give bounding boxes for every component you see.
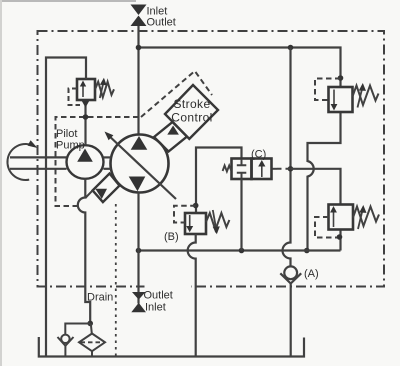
svg-text:Pilot: Pilot [56,128,77,140]
wire: drain branch to bypass check [65,324,90,335]
wire: upper relief return, hop over mid rail, to bottom rail [308,112,341,251]
wire: bypass check to tank [64,346,66,357]
wire: pilot pump up to pilot relief [84,100,86,145]
port triangle outlet (top, up) [131,16,147,27]
node top rail / pump line [136,45,142,51]
rotation arrow arc [7,144,33,180]
svg-text:Outlet: Outlet [147,17,176,29]
pilot relief spring [95,82,114,98]
relief valve upper right spring [353,86,379,106]
node bottom rail / pump line [136,248,142,254]
valve B arrow [189,215,191,227]
scan edge artifact left [0,0,2,366]
main pump bottom triangle [129,177,146,192]
main pump variable arrow [107,134,177,200]
wire: pilot pump case drain with hop [78,179,90,324]
wire: valve C right stub [272,168,278,170]
wire: servo link to drain [85,190,92,198]
main pump circle [111,135,169,193]
svg-text:Stroke: Stroke [173,97,210,111]
valve B body [185,213,206,234]
boundary gap near bottom port [145,282,192,291]
enclosure boundary (dash-dot case outline) [38,31,385,287]
wire: valve C bottom to bottom rail [240,179,242,251]
relief valve upper right pilot dashed [315,79,341,101]
servo link upper right [154,122,187,152]
dotted feedback line [115,204,117,357]
svg-text:Control: Control [171,111,212,125]
valve C spring [223,166,232,172]
svg-text:Inlet: Inlet [145,302,166,314]
wire: pump bottom to outlet/inlet port [137,193,139,304]
wire: valve B down with hop over bottom rail to tank [188,234,196,357]
svg-text:Drain: Drain [87,292,113,304]
svg-text:(A): (A) [304,268,319,280]
node upper relief pilot tap [338,75,344,81]
port triangle inlet (top, down) [131,5,147,16]
bypass check ball [61,335,69,343]
valve C left box [232,159,252,180]
wire: mid rail to lower right relief valve [291,169,341,205]
check valve A seat [280,273,301,283]
wire: right bus down to check valve A with hop over bottom rail [283,48,291,267]
relief valve lower right pilot dashed [315,217,337,238]
servo link upper triangle [167,126,179,135]
valve B pilot dashed [174,206,196,223]
scan edge artifact top [0,0,136,2]
wire: filter to tank [91,351,93,356]
pilot relief valve arrow [82,85,84,97]
pilot pump circle [67,145,104,179]
valve C blocked port top T [237,159,247,165]
valve B adjust arrow [213,210,216,228]
stroke control dashed diamond [141,71,212,117]
node relief return / bottom rail [304,248,310,254]
relief valve lower right arrow [333,212,335,227]
pilot drain arrowhead [82,101,90,108]
valve C flow arrow [261,165,263,177]
servo link lower left [93,174,120,203]
rotation arrow head [28,140,38,148]
filter diamond [79,334,105,352]
filter element dashes [81,341,104,343]
tank reservoir [39,337,304,357]
node right bus / mid rail [288,166,294,172]
node valve B / valve C [193,203,199,209]
valve C blocked port bottom T [237,173,247,179]
bypass check seat [58,337,74,346]
relief valve lower right spring [353,207,379,227]
svg-text:Pump: Pump [56,140,85,152]
node bottom rail / valve C line [239,248,245,254]
drive shaft lines [10,156,67,158]
svg-text:Outlet: Outlet [144,290,173,302]
svg-text:(B): (B) [164,231,179,243]
node pilot line [83,114,89,120]
relief valve lower right adjust arrow [358,208,363,229]
svg-text:(C): (C) [251,149,266,161]
wire: bottom rail [139,249,341,251]
node top rail / right bus [288,45,294,51]
wire: drain to filter [91,324,92,334]
valve B spring [206,213,229,230]
wire: pilot relief to left return line [46,58,86,357]
relief valve upper right body [329,87,353,112]
pilot relief adjust arrow [100,83,104,98]
port triangle inlet (bottom, up) [131,303,146,313]
wire: top rail [139,48,341,88]
wire: check valve A to tank [290,284,292,357]
servo link lower triangle [95,189,107,199]
port triangle outlet (bottom, down) [132,292,146,300]
wire: valve B/C feed from stroke control area [196,148,242,214]
pilot pump triangle [77,149,93,162]
wire: pump top line to inlet/outlet port [137,26,139,135]
pilot relief valve body [77,79,95,100]
shaft link between pumps [104,156,112,158]
wire: mid rail valve C pilot dashed [277,168,291,170]
wire: lower right relief valve to bottom rail [339,230,341,251]
relief valve upper right arrow [333,90,335,106]
relief valve lower right body [329,205,354,230]
pilot relief pilot dashed [69,89,81,106]
pilot pump dashed enclosure [56,117,142,206]
stroke control diamond [165,85,218,139]
check valve A ball [284,266,297,279]
node drain junction [87,321,93,327]
valve C right box [252,159,272,180]
main pump top triangle [131,136,148,150]
node lower relief pilot tap [337,234,343,240]
relief valve upper right adjust arrow [358,87,363,108]
